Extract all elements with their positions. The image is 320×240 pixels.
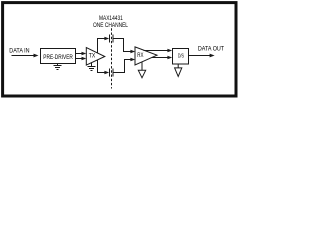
svg-text:D/S: D/S	[178, 54, 184, 60]
svg-text:RX: RX	[137, 53, 143, 59]
svg-text:PRE-DRIVER: PRE-DRIVER	[43, 55, 73, 61]
svg-text:DATA IN: DATA IN	[9, 47, 30, 54]
svg-text:ONE CHANNEL: ONE CHANNEL	[93, 22, 128, 29]
svg-text:DATA OUT: DATA OUT	[198, 45, 224, 52]
svg-text:TX: TX	[89, 54, 96, 60]
svg-text:MAX14431: MAX14431	[99, 15, 123, 22]
